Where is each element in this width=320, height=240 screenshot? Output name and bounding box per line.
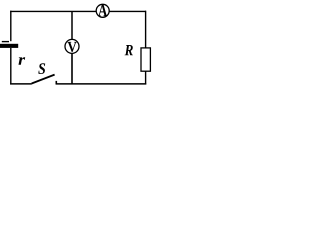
- wire right vertical upper: [145, 11, 147, 49]
- wire voltmeter stub lower: [71, 53, 73, 84]
- resistor R box: [141, 48, 150, 71]
- ammeter U-A circle: [96, 4, 109, 17]
- wire voltmeter stub upper: [71, 11, 73, 39]
- label S: [38, 63, 45, 74]
- battery thin plate (top): [2, 41, 9, 43]
- wire bottom left segment: [10, 83, 32, 85]
- voltmeter U-V circle: [65, 39, 79, 53]
- label r (internal resistance): [19, 57, 26, 65]
- wire right vertical lower: [145, 71, 147, 85]
- switch right contact stub: [55, 81, 57, 84]
- wire left vertical upper: [10, 11, 12, 42]
- wire bottom right segment: [56, 83, 147, 85]
- switch S blade: [32, 75, 55, 84]
- ammeter letter A: [98, 5, 107, 16]
- voltmeter letter V: [68, 42, 77, 52]
- wire left vertical lower: [10, 48, 12, 85]
- battery thick plate (bottom): [0, 44, 18, 48]
- label R: [125, 45, 133, 55]
- wire top horizontal: [10, 10, 146, 12]
